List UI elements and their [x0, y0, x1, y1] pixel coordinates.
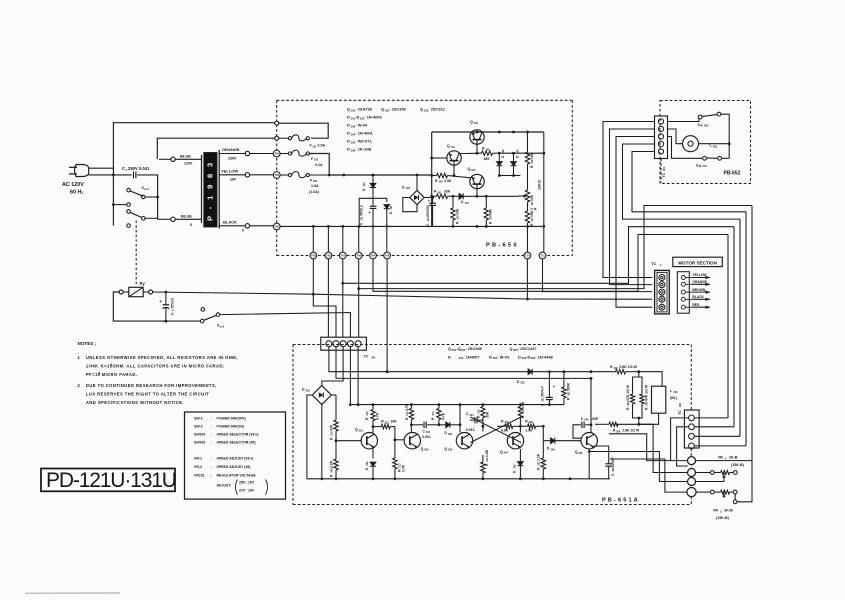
- terminal T08: [310, 252, 317, 259]
- svg-text:102: 102: [313, 179, 318, 183]
- notes heading: [78, 341, 97, 346]
- transformer T1 primary terminal 0: [171, 217, 202, 221]
- wire to Q203: [459, 405, 462, 433]
- resistor R107 16K: [525, 210, 534, 226]
- svg-text:DUE TO CONTINUED RESEARCH FOR: DUE TO CONTINUED RESEARCH FOR IMPROVEMEN…: [86, 383, 217, 388]
- svg-text:Q: Q: [510, 346, 513, 351]
- wire F101 loop: [279, 123, 329, 138]
- svg-text:-6: -6: [98, 371, 101, 375]
- wire T09 up: [358, 226, 360, 255]
- svg-text:10K: 10K: [530, 152, 534, 159]
- svg-text::: :: [211, 441, 212, 445]
- label F103 0.1A: [311, 157, 323, 167]
- svg-text:203: 203: [366, 461, 369, 466]
- svg-text:BLACK: BLACK: [692, 295, 704, 299]
- svg-text:120V: 120V: [184, 162, 193, 166]
- wire mid rail PB-651A: [349, 403, 564, 406]
- svg-text:10K-B: 10K-B: [538, 180, 542, 190]
- svg-text:201: 201: [663, 166, 666, 171]
- resistor R218 6.8K: [497, 419, 522, 432]
- svg-text:301: 301: [703, 164, 708, 168]
- svg-text:270 : 18V: 270 : 18V: [239, 489, 255, 493]
- svg-text:Q: Q: [420, 107, 423, 112]
- resistor R221 1.2K: [537, 425, 546, 479]
- wire T05 up: [327, 225, 330, 252]
- svg-text:60 H: 60 H: [70, 190, 81, 196]
- svg-text:AND SPECIFICATIONS WITHOUT NOT: AND SPECIFICATIONS WITHOUT NOTICE.: [86, 400, 184, 405]
- node mains in: [275, 121, 279, 125]
- svg-text:BLUE: BLUE: [180, 154, 191, 159]
- parts list PB-650 line4: [347, 131, 374, 137]
- motor wire ORANGE: [685, 280, 710, 286]
- connector TC201 PB-651A: [321, 337, 367, 350]
- diode D201: [517, 369, 610, 385]
- fuse F103: [280, 150, 329, 175]
- svg-text:: 1K-10B: : 1K-10B: [355, 147, 371, 152]
- wire TC102 c1 left: [671, 418, 689, 461]
- label VR2 2K-B (15K-B): [713, 509, 733, 521]
- wire rail to L201: [639, 372, 662, 387]
- svg-text:SPEED ADJUST (33⅓): SPEED ADJUST (33⅓): [217, 457, 254, 461]
- loop C right: [739, 219, 741, 436]
- AC plug P1: [69, 165, 89, 177]
- wire T09 down branch: [357, 206, 752, 338]
- svg-text:4.7K: 4.7K: [405, 403, 409, 411]
- svg-text:102: 102: [679, 403, 682, 408]
- svg-text:202: 202: [306, 388, 311, 392]
- transformer secondary wire YELLOW: [219, 173, 274, 177]
- transistor Q103: [448, 167, 485, 196]
- svg-text::: :: [211, 417, 212, 421]
- svg-text:: 2SA733: : 2SA733: [355, 107, 372, 112]
- svg-text:101: 101: [312, 144, 317, 148]
- svg-text:2K-B: 2K-B: [729, 456, 738, 460]
- svg-text:203: 203: [469, 414, 474, 417]
- svg-text:206: 206: [616, 430, 621, 433]
- svg-text:SPEED SELECTOR (33⅓): SPEED SELECTOR (33⅓): [217, 433, 259, 437]
- svg-text:PB-652: PB-652: [724, 171, 741, 177]
- svg-text:1.5K: 1.5K: [525, 429, 533, 433]
- svg-text:D: D: [448, 354, 451, 359]
- wire right rail PB650: [542, 132, 545, 228]
- svg-text:POWER SW(OFF): POWER SW(OFF): [217, 417, 246, 421]
- svg-text:PD-121U·131U: PD-121U·131U: [46, 469, 176, 492]
- resistor R108 10K: [525, 132, 534, 190]
- svg-text:VR: VR: [713, 509, 718, 513]
- svg-text:D: D: [517, 380, 520, 384]
- svg-text:214: 214: [432, 411, 435, 416]
- resistor R204 2.8K 1/3W: [610, 365, 640, 374]
- svg-text:560K: 560K: [566, 382, 570, 391]
- svg-text:680: 680: [489, 209, 493, 215]
- svg-text:D: D: [518, 354, 521, 359]
- wire left down: [112, 168, 115, 225]
- svg-text:0.1A: 0.1A: [315, 163, 323, 167]
- wire T10 stem: [528, 226, 544, 252]
- wire Q201-Q202 base link: [395, 439, 404, 441]
- capacitor C203 0.012: [466, 412, 483, 432]
- label PB-652: [724, 171, 741, 177]
- wire T05 down to TC201: [327, 259, 329, 337]
- note 1 line 2: [86, 363, 225, 369]
- board outline PB-652: [660, 101, 751, 184]
- note 1 line 1: [78, 355, 238, 360]
- svg-text:33K: 33K: [486, 411, 490, 418]
- loop E right: [727, 235, 729, 418]
- svg-text:P B - 6 5 0: P B - 6 5 0: [486, 243, 517, 249]
- svg-text:103: 103: [471, 168, 476, 172]
- wire T04 down branch: [373, 235, 728, 292]
- svg-text:103: 103: [314, 158, 319, 162]
- svg-text:: W-04: : W-04: [355, 123, 367, 128]
- transistor Q102: [470, 120, 484, 153]
- switch SW-3: [200, 308, 219, 323]
- diode D205: [512, 449, 523, 479]
- svg-text:VR-1: VR-1: [194, 457, 202, 461]
- svg-text:P B - 6 5 1 A: P B - 6 5 1 A: [602, 498, 638, 504]
- label BLUE 120V: [180, 154, 193, 166]
- pot VR101 10K-B: [518, 180, 542, 211]
- svg-text:TC: TC: [678, 410, 682, 415]
- svg-text:101: 101: [451, 145, 456, 149]
- svg-text:SW-1: SW-1: [194, 417, 203, 421]
- wire bridge connections: [403, 174, 433, 212]
- svg-text:REGULATOR VOLTAGE: REGULATOR VOLTAGE: [217, 473, 257, 477]
- wire T06 up: [386, 226, 388, 255]
- svg-text:AC 120V: AC 120V: [62, 182, 84, 188]
- svg-text:MOTOR SECTION: MOTOR SECTION: [678, 260, 717, 265]
- wire plug top to PB-650: [89, 123, 277, 169]
- bridge rectifier D202: [302, 386, 331, 405]
- parts list PB-650 line3: [347, 123, 368, 129]
- svg-text:Ry: Ry: [140, 281, 146, 286]
- resistor R201 560K: [562, 372, 571, 405]
- resistor R212 10K: [373, 420, 397, 440]
- svg-text:ORANGE: ORANGE: [692, 280, 707, 284]
- fuse F101: [288, 135, 309, 141]
- svg-text:216: 216: [477, 409, 480, 414]
- svg-text:104: 104: [465, 202, 470, 205]
- wire Q205 base vertical: [590, 377, 593, 433]
- wire harness row4 loop C: [623, 144, 741, 219]
- resistor R216 33K: [476, 405, 489, 427]
- note 2 line 1: [78, 383, 217, 388]
- svg-text:10K: 10K: [455, 208, 459, 215]
- svg-text:101: 101: [390, 205, 393, 210]
- svg-text:: W-04: : W-04: [497, 354, 509, 359]
- svg-text:2200P: 2200P: [611, 456, 615, 467]
- svg-text:Q: Q: [448, 346, 451, 351]
- svg-text:0.001: 0.001: [422, 435, 431, 439]
- parts list PB-650 line2: [347, 115, 383, 121]
- capacitor C201 35V4.7: [541, 372, 556, 406]
- svg-text:47K 1/3 W: 47K 1/3 W: [645, 384, 649, 401]
- svg-text:250 : 15V: 250 : 15V: [239, 481, 255, 485]
- resistor R104 680: [484, 195, 493, 226]
- wire T08 down to branch: [312, 259, 336, 337]
- svg-text:203: 203: [448, 448, 453, 452]
- svg-text:6.8K: 6.8K: [501, 429, 509, 433]
- title box PD-121U-131U: [41, 469, 176, 493]
- label F102 1.5A (1.6A): [309, 178, 320, 194]
- svg-text:T08: T08: [311, 254, 316, 258]
- resistor R101 33K: [430, 190, 478, 199]
- svg-text:205: 205: [513, 464, 516, 469]
- svg-text:Q: Q: [355, 428, 358, 432]
- terminal B2: [688, 469, 696, 477]
- resistor R213 2.7K: [393, 438, 406, 478]
- terminal T09: [355, 252, 362, 259]
- wire 153 rail right: [499, 152, 545, 155]
- svg-text:(BL): (BL): [670, 396, 678, 400]
- terminal T06: [384, 252, 391, 259]
- svg-text:T07: T07: [341, 254, 346, 258]
- wire Q201 emitter down: [372, 448, 374, 459]
- svg-text:T05: T05: [326, 254, 331, 258]
- svg-text:33K: 33K: [444, 190, 451, 194]
- board outline PB-650: [277, 100, 573, 255]
- svg-text:204: 204: [614, 367, 619, 370]
- wire out2: [639, 424, 688, 472]
- svg-text:T03: T03: [274, 225, 279, 229]
- pot VR2: [696, 490, 737, 497]
- svg-text:1.2K: 1.2K: [537, 453, 541, 461]
- svg-text:680: 680: [484, 157, 490, 161]
- wire harness row2 to TC1 pin2: [610, 129, 655, 285]
- resistor R203 47K 1/3W: [639, 377, 649, 418]
- svg-text:D: D: [347, 139, 350, 144]
- svg-text:w-2: w-2: [144, 187, 149, 191]
- wire T10 down: [526, 259, 528, 299]
- resistor R105 680: [482, 147, 501, 162]
- svg-text:218: 218: [505, 421, 510, 424]
- wire Q205 emitter down: [588, 449, 590, 479]
- svg-text:YELLOW: YELLOW: [221, 168, 238, 173]
- svg-text:: 2SC945: : 2SC945: [465, 346, 482, 351]
- wire harness row5 loop B: [632, 152, 746, 212]
- capacitor C2 35V10: [159, 291, 174, 323]
- svg-text:1.5A: 1.5A: [311, 184, 319, 188]
- resistor R214 4.7K: [431, 405, 445, 425]
- svg-text:Q: Q: [500, 450, 503, 454]
- resistor R208 2.2K: [330, 459, 339, 480]
- svg-text:LUX RESERVES THE RIGHT TO ALTE: LUX RESERVES THE RIGHT TO ALTER THE CIRC…: [86, 392, 209, 397]
- svg-text:1.8K: 1.8K: [485, 449, 489, 457]
- wire R202 join down: [637, 418, 640, 426]
- svg-text:16K: 16K: [530, 210, 534, 217]
- wire lamp right: [699, 142, 731, 145]
- label F101 0.5A: [310, 144, 326, 149]
- svg-text:250V 0.041: 250V 0.041: [128, 166, 150, 171]
- note 1 line 3: [86, 371, 137, 377]
- svg-text:YELLOW: YELLOW: [692, 273, 707, 277]
- resistor R210 33K: [330, 395, 339, 459]
- svg-text:301: 301: [713, 144, 718, 148]
- motor wire BROWN: [685, 288, 710, 294]
- svg-text:T02: T02: [274, 173, 279, 177]
- terminal T10: [524, 252, 531, 259]
- junction at AC neutral: [112, 174, 115, 177]
- cross coupling wires: [471, 417, 522, 443]
- note 2 line 2: [86, 392, 209, 397]
- terminal T01: [273, 150, 280, 157]
- svg-text:BLUE: BLUE: [181, 214, 192, 219]
- resistor R217 3.9K: [518, 401, 525, 426]
- diode D104: [459, 193, 518, 205]
- resistor R211 4.7K: [405, 403, 414, 432]
- svg-text::: :: [211, 465, 212, 469]
- transistor Q205: [575, 433, 598, 455]
- resistor R103 3.3K: [430, 173, 451, 183]
- svg-text:220: 220: [529, 421, 534, 424]
- diode D101: [384, 205, 393, 227]
- svg-text:: 1N-4001: : 1N-4001: [355, 131, 373, 136]
- transistor Q101: [430, 144, 481, 177]
- svg-text:VR: VR: [718, 456, 723, 460]
- svg-text:230V: 230V: [228, 157, 237, 161]
- motor section label box: [673, 257, 723, 266]
- terminal T02: [273, 172, 280, 179]
- svg-text:204: 204: [448, 433, 453, 436]
- svg-text:SPEED ADJUST (45): SPEED ADJUST (45): [217, 465, 251, 469]
- relay Ry: [119, 287, 152, 296]
- wire box C101 D101: [359, 198, 387, 226]
- svg-text:3.9K: 3.9K: [521, 401, 525, 409]
- wire B1 to loop A: [696, 461, 753, 502]
- svg-text:2.8K 1/3 W: 2.8K 1/3 W: [619, 365, 637, 369]
- svg-text:201: 201: [520, 381, 525, 385]
- resistor R220 1.5K: [520, 419, 543, 432]
- label BLACK 0: [223, 219, 244, 232]
- note 2 line 3: [86, 400, 184, 405]
- capacitor C202 0.001: [411, 422, 440, 439]
- svg-text:Q: Q: [381, 107, 384, 112]
- svg-text:VR-2: VR-2: [194, 465, 202, 469]
- capacitor C205 2200P: [594, 446, 615, 479]
- label YELLOW 18V: [221, 168, 238, 181]
- switch SW 301: [703, 156, 730, 160]
- scan artifact bottom line: [25, 592, 120, 594]
- lamp L301: [683, 136, 718, 152]
- svg-text:201: 201: [359, 428, 364, 432]
- svg-text:101: 101: [437, 191, 442, 194]
- svg-text:(15K-B): (15K-B): [716, 516, 730, 520]
- resistor R219 1.8K: [481, 449, 489, 479]
- node mains out: [275, 136, 279, 140]
- svg-text:w-3: w-3: [220, 324, 225, 328]
- svg-text:Q: Q: [444, 447, 447, 451]
- label AC 120V 60Hz: [62, 182, 84, 196]
- svg-text:10K: 10K: [530, 194, 534, 201]
- svg-text:201: 201: [371, 356, 376, 359]
- svg-text:Q: Q: [575, 450, 578, 454]
- wire plug bottom: [89, 174, 132, 176]
- motor wire RED: [685, 303, 710, 309]
- svg-text:201: 201: [673, 390, 678, 394]
- svg-text:2.2K: 2.2K: [330, 460, 334, 468]
- svg-text:Q: Q: [447, 144, 450, 148]
- label BLUE 0: [181, 214, 192, 228]
- svg-text:T06: T06: [385, 254, 390, 258]
- svg-text:: 2SC256: : 2SC256: [389, 107, 406, 112]
- connector TC201 PB-652: [655, 116, 668, 159]
- svg-text:POWER SW(ON): POWER SW(ON): [217, 425, 244, 429]
- svg-text:204: 204: [504, 451, 509, 455]
- svg-text:1/4W; K=10: 1/4W; K=10: [86, 364, 113, 369]
- terminal T11: [539, 252, 546, 259]
- wire Q-section top rail: [432, 131, 544, 134]
- wire TC102 c2 left: [677, 427, 689, 466]
- label TC 1 connector: [651, 261, 662, 267]
- wire out1: [609, 434, 688, 461]
- label Ry: [140, 281, 146, 286]
- terminal B3: [688, 478, 696, 486]
- wire relay left loop: [113, 292, 200, 321]
- transformer secondary wire BLACK: [219, 224, 274, 228]
- wire T07 up: [341, 225, 344, 252]
- svg-text:2.7K: 2.7K: [401, 464, 405, 472]
- svg-text:NOTES ;: NOTES ;: [78, 341, 97, 346]
- label SW 302: [698, 123, 709, 128]
- svg-text:SW302: SW302: [194, 441, 206, 445]
- wire out3: [588, 450, 688, 481]
- svg-text:UNLESS OTHERWISE SPECIFIED, A: UNLESS OTHERWISE SPECIFIED, ALL RESISTOR…: [86, 355, 238, 360]
- svg-text:P-1983: P-1983: [206, 156, 215, 221]
- wire Q-section bottom rail: [432, 225, 544, 228]
- svg-text:: 1N-4448: : 1N-4448: [535, 354, 553, 359]
- capacitor C103 25V330: [426, 196, 436, 226]
- svg-text:202: 202: [424, 448, 429, 452]
- svg-text:105: 105: [502, 149, 505, 154]
- wire TC102 right stubs: [694, 418, 746, 446]
- switch SW 302: [668, 112, 730, 158]
- svg-text:: 2SC312: : 2SC312: [428, 107, 445, 112]
- svg-text:302: 302: [704, 124, 709, 128]
- pot VR1: [696, 471, 738, 480]
- wire harness row1 to TC1 pin1: [603, 122, 655, 278]
- wire Q102 collector: [476, 152, 479, 155]
- svg-text:4.7K: 4.7K: [441, 412, 445, 420]
- svg-text:1.8K 1/2 W: 1.8K 1/2 W: [622, 429, 640, 433]
- label VR1 2K-B (15K-B): [718, 456, 745, 468]
- wire C1 to switch node: [137, 175, 159, 219]
- coil L201 (BL): [652, 386, 679, 413]
- bridge rectifier D103: [402, 185, 424, 204]
- svg-text:Q: Q: [421, 447, 424, 451]
- parts list PB-651A line2: [448, 354, 554, 360]
- svg-text:T09: T09: [356, 254, 361, 258]
- svg-text:D: D: [347, 115, 350, 120]
- wire bottom rail PB-651A: [307, 477, 610, 480]
- svg-text:18V: 18V: [230, 178, 237, 182]
- dashed link TC201 to edge: [660, 159, 662, 183]
- terminal B1: [688, 457, 696, 465]
- capacitor C101 35V2.2: [360, 205, 377, 226]
- svg-text:(15K-B): (15K-B): [731, 463, 745, 467]
- svg-text:SPEED SELECTOR (45): SPEED SELECTOR (45): [217, 441, 256, 445]
- terminal B4: [687, 488, 696, 497]
- wire SW-3 to TC201: [220, 313, 351, 338]
- wire bridge left: [307, 395, 312, 479]
- wire main rail 175.6: [329, 174, 432, 177]
- svg-text:D: D: [402, 185, 405, 189]
- svg-text::: :: [211, 473, 212, 477]
- resistor R202 47K 1/2W: [626, 372, 639, 418]
- label SW 301: [696, 163, 707, 168]
- svg-text:BROWN: BROWN: [692, 288, 705, 292]
- svg-text:: WZ-071: : WZ-071: [355, 139, 372, 144]
- svg-text:D: D: [347, 147, 350, 152]
